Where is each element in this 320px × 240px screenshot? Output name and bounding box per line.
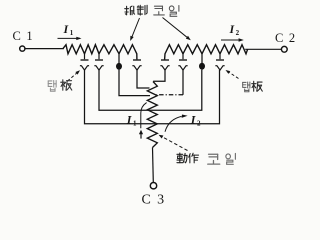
- svg-text:2: 2: [197, 120, 201, 128]
- svg-text:2: 2: [236, 29, 240, 37]
- svg-text:1: 1: [70, 29, 74, 37]
- svg-text:C 3: C 3: [142, 192, 166, 207]
- svg-text:1: 1: [133, 120, 137, 128]
- svg-text:C 2: C 2: [275, 31, 296, 45]
- svg-text:C 1: C 1: [13, 29, 34, 43]
